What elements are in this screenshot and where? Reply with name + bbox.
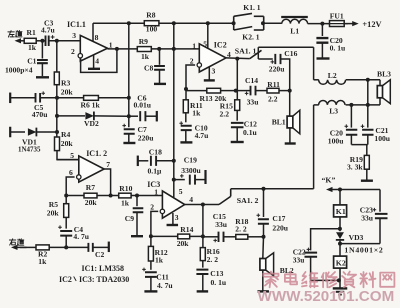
svg-text:L1: L1 <box>290 26 299 35</box>
diode VD1 zener <box>28 128 37 136</box>
wire <box>224 236 236 238</box>
capacitor C11 <box>145 272 157 277</box>
svg-text:20k: 20k <box>61 87 74 96</box>
resistor R3 <box>54 72 59 85</box>
node +12V <box>343 23 353 25</box>
resistor R5 <box>64 204 69 218</box>
wire <box>236 90 251 92</box>
capacitor C13 <box>196 270 208 274</box>
wire <box>314 104 319 106</box>
wire <box>236 91 238 100</box>
svg-text:33u: 33u <box>361 214 374 223</box>
wire <box>366 145 368 156</box>
resistor R13 <box>207 88 221 93</box>
node K <box>332 189 342 191</box>
svg-text:100u: 100u <box>328 137 344 146</box>
svg-text:WWW.520101.COM: WWW.520101.COM <box>258 288 395 303</box>
svg-text:R6 1k: R6 1k <box>81 101 101 110</box>
wire <box>366 169 368 180</box>
junction <box>337 278 341 282</box>
wire <box>98 97 128 99</box>
svg-text:L3: L3 <box>329 107 338 116</box>
svg-text:3. 3k: 3. 3k <box>347 163 363 172</box>
svg-text:1: 1 <box>154 187 158 196</box>
wire <box>56 85 58 137</box>
wire <box>185 89 187 100</box>
wire <box>289 91 291 117</box>
node terminal <box>9 127 11 138</box>
op-amp IC3 <box>162 191 184 218</box>
svg-text:20k: 20k <box>85 198 98 207</box>
ground <box>144 290 157 292</box>
junction <box>127 96 131 100</box>
wire <box>202 205 204 237</box>
svg-text:1N4001×2: 1N4001×2 <box>344 246 383 255</box>
wire <box>173 23 175 197</box>
svg-text:3300u: 3300u <box>181 166 201 175</box>
junction <box>115 47 119 51</box>
junction <box>64 194 68 198</box>
junction <box>288 89 292 93</box>
wire <box>108 48 138 50</box>
svg-text:0.1μ: 0.1μ <box>148 166 162 175</box>
wire <box>129 115 138 117</box>
svg-text:IC3: TDA2030: IC3: TDA2030 <box>79 275 129 284</box>
capacitor C10 <box>181 126 192 130</box>
watermark text row1 <box>263 272 278 288</box>
wire <box>279 90 290 92</box>
wire <box>264 22 282 24</box>
resistor R16 <box>200 248 205 261</box>
switch SA1.2 <box>219 196 231 204</box>
ground <box>154 83 166 85</box>
resistor R2 <box>36 245 49 250</box>
junction <box>109 194 113 198</box>
capacitor C8 <box>159 49 161 65</box>
svg-text:2. 2: 2. 2 <box>207 255 219 264</box>
junction <box>55 114 59 118</box>
svg-text:IC1: LM358: IC1: LM358 <box>82 264 124 273</box>
svg-text:100: 100 <box>146 24 158 33</box>
capacitor C6 <box>140 111 145 121</box>
svg-text:R1: R1 <box>27 28 36 37</box>
junction <box>262 187 266 191</box>
svg-text:C13: C13 <box>210 269 223 278</box>
svg-text:4: 4 <box>95 56 99 65</box>
node terminal <box>156 111 158 122</box>
svg-text:C14: C14 <box>245 76 258 85</box>
wire <box>339 241 341 257</box>
junction <box>127 21 131 25</box>
svg-text:R11: R11 <box>267 80 280 89</box>
wire <box>57 151 79 160</box>
wire <box>190 235 203 237</box>
svg-text:R10: R10 <box>119 184 132 193</box>
wire <box>57 159 79 161</box>
wire <box>93 22 234 24</box>
wire <box>351 144 367 146</box>
svg-text:20k: 20k <box>47 209 60 218</box>
wire <box>342 189 381 191</box>
ground <box>361 179 373 181</box>
wire <box>65 196 67 204</box>
wire <box>20 246 36 248</box>
wire <box>104 169 111 196</box>
junction <box>172 21 176 25</box>
svg-text:1k: 1k <box>121 199 130 208</box>
wire <box>207 23 209 48</box>
ground <box>93 55 95 68</box>
capacitor C7 <box>128 116 130 127</box>
wire <box>346 79 380 81</box>
svg-text:4. 7u: 4. 7u <box>73 232 89 241</box>
junction <box>55 96 59 100</box>
capacitor C23 <box>379 190 381 212</box>
svg-text:1k: 1k <box>192 109 201 118</box>
wire <box>57 115 85 117</box>
capacitor C19 <box>174 179 185 181</box>
svg-text:K2. 1: K2. 1 <box>242 32 260 41</box>
ground <box>208 67 210 80</box>
inductor L3 <box>319 101 345 105</box>
junction <box>172 178 176 182</box>
junction <box>201 203 205 207</box>
svg-text:VD3: VD3 <box>349 233 364 242</box>
ground <box>180 141 192 143</box>
node right-channel input 右道 <box>17 246 27 248</box>
capacitor C16 <box>275 54 280 64</box>
svg-text:33u: 33u <box>247 98 260 107</box>
svg-text:R7: R7 <box>86 183 95 192</box>
svg-text:7: 7 <box>106 160 110 169</box>
ground <box>197 290 209 292</box>
svg-text:1k: 1k <box>38 257 47 266</box>
wire <box>145 115 156 117</box>
svg-text:C1: C1 <box>27 56 36 65</box>
capacitor C15 <box>219 232 224 242</box>
svg-text:3: 3 <box>175 213 179 222</box>
junction <box>366 103 370 107</box>
svg-text:8: 8 <box>95 33 99 42</box>
wire <box>313 47 315 80</box>
ground <box>317 57 330 59</box>
capacitor C3 <box>46 36 49 47</box>
ground <box>131 235 143 237</box>
junction <box>206 21 210 25</box>
wire <box>151 211 158 236</box>
relay coil K1 <box>334 205 347 217</box>
wire <box>36 131 57 133</box>
wire <box>185 204 219 206</box>
svg-text:1: 1 <box>192 41 196 50</box>
svg-text:R3: R3 <box>61 78 70 87</box>
junction <box>127 114 131 118</box>
node terminal <box>9 93 11 104</box>
wire <box>313 105 315 189</box>
resistor R10 <box>119 193 131 198</box>
svg-text:2: 2 <box>150 203 154 212</box>
junction <box>338 242 342 246</box>
svg-text:VD2: VD2 <box>84 119 99 128</box>
svg-text:FU1: FU1 <box>330 12 344 21</box>
speaker BL3 <box>379 80 381 105</box>
svg-text:33u: 33u <box>293 255 305 264</box>
wire <box>66 195 84 197</box>
wire <box>339 217 341 231</box>
svg-text:4.7u: 4.7u <box>195 131 209 140</box>
wire <box>339 268 341 288</box>
wire <box>94 115 129 117</box>
svg-text:3: 3 <box>72 31 76 40</box>
wire <box>186 90 207 92</box>
resistor R12 <box>148 246 153 261</box>
svg-text:4. 7u: 4. 7u <box>157 281 173 290</box>
svg-text:5: 5 <box>203 39 207 48</box>
wire <box>262 270 264 291</box>
svg-text:0. 1u: 0. 1u <box>330 43 346 52</box>
wire <box>262 237 265 259</box>
resistor R18 <box>236 235 248 240</box>
svg-text:220u: 220u <box>138 133 154 142</box>
wire <box>367 80 369 105</box>
svg-text:IC1.1: IC1.1 <box>67 20 86 29</box>
resistor R1 <box>24 38 36 43</box>
svg-text:C17: C17 <box>272 214 285 223</box>
resistor R7 <box>84 193 97 198</box>
wire <box>40 97 57 99</box>
wire <box>231 188 314 190</box>
svg-text:5: 5 <box>70 151 74 160</box>
switch SA1.1 <box>250 50 262 58</box>
wire <box>131 195 162 197</box>
svg-text:2.2: 2.2 <box>220 110 230 119</box>
wire <box>65 217 67 228</box>
svg-text:0.1u: 0.1u <box>243 128 257 137</box>
wire <box>66 177 74 196</box>
svg-text:L2: L2 <box>328 71 337 80</box>
svg-text:R4: R4 <box>61 130 70 139</box>
node left-channel input 左道 <box>20 40 30 42</box>
capacitor C20 (0.1u) <box>321 24 323 36</box>
svg-text:SA1. 1: SA1. 1 <box>235 47 257 56</box>
wire <box>151 48 199 50</box>
wire <box>128 23 130 116</box>
junction <box>157 47 161 51</box>
svg-text:K2: K2 <box>336 258 346 267</box>
junction <box>366 78 370 82</box>
wire <box>65 236 67 248</box>
junction <box>338 227 342 231</box>
wire <box>202 261 204 268</box>
diode VD2 <box>85 112 94 120</box>
wire <box>49 246 88 248</box>
ground <box>172 213 174 224</box>
svg-text:C19: C19 <box>184 156 197 165</box>
svg-text:33u: 33u <box>215 220 228 229</box>
junction <box>232 21 236 25</box>
wire <box>150 277 152 291</box>
svg-text:1k: 1k <box>141 52 150 61</box>
wire <box>221 90 236 92</box>
svg-text:20k: 20k <box>61 139 74 148</box>
junction <box>40 39 44 43</box>
op-amp IC1.2 <box>79 156 104 182</box>
junction <box>64 245 68 249</box>
svg-text:3: 3 <box>212 67 216 76</box>
svg-text:C2: C2 <box>95 250 104 259</box>
wire <box>281 59 290 91</box>
svg-text:4: 4 <box>189 195 193 204</box>
svg-text:2.2: 2.2 <box>268 94 278 103</box>
svg-text:R14: R14 <box>180 225 193 234</box>
resistor R11 (2.2) <box>267 88 279 93</box>
svg-text:K1: K1 <box>336 207 346 216</box>
svg-text:+12V: +12V <box>362 20 381 29</box>
junction <box>234 89 238 93</box>
wire <box>36 40 45 42</box>
resistor R8 <box>144 21 159 26</box>
speaker BL1 <box>287 116 293 128</box>
svg-text:0. 1u: 0. 1u <box>211 278 227 287</box>
capacitor C12 <box>231 123 244 127</box>
ground <box>285 142 296 144</box>
svg-text:4.7u: 4.7u <box>41 26 55 35</box>
resistor R9 <box>137 47 151 52</box>
resistor R14 <box>178 234 190 239</box>
wire <box>308 23 330 25</box>
svg-text:C18: C18 <box>149 147 162 156</box>
svg-text:C16: C16 <box>284 49 297 58</box>
capacitor C4 <box>60 231 72 236</box>
junction <box>135 194 139 198</box>
wire <box>186 65 195 89</box>
wire <box>151 235 178 237</box>
junction <box>320 22 324 26</box>
svg-text:1: 1 <box>109 40 113 49</box>
wire <box>289 128 291 143</box>
diode VD3 <box>336 232 344 239</box>
wire <box>340 243 380 245</box>
capacitor C17 <box>263 189 265 217</box>
junction <box>172 47 176 51</box>
resistor R19 <box>364 155 369 169</box>
capacitor C20 (100u) <box>350 105 352 128</box>
ground <box>123 142 135 144</box>
svg-text:R8: R8 <box>146 11 155 20</box>
wire <box>226 57 250 60</box>
inductor L1 <box>282 19 308 23</box>
wire <box>56 41 58 72</box>
capacitor C18 <box>137 156 139 167</box>
wire <box>97 195 119 197</box>
wire <box>258 46 313 48</box>
svg-text:“K”: “K” <box>322 175 336 184</box>
svg-text:1k: 1k <box>28 43 37 52</box>
fuse FU1 <box>330 21 345 27</box>
wire <box>248 236 264 238</box>
ground <box>257 290 269 292</box>
svg-text:1k: 1k <box>155 255 164 264</box>
junction <box>261 21 265 25</box>
wire <box>81 49 117 73</box>
svg-text:C8: C8 <box>144 64 153 73</box>
inductor L2 <box>319 80 346 85</box>
wire <box>57 97 84 99</box>
svg-text:C9: C9 <box>125 214 134 223</box>
wire <box>10 131 25 133</box>
junction <box>55 130 59 134</box>
svg-text:BL1: BL1 <box>272 118 286 127</box>
capacitor C22 <box>311 229 340 251</box>
capacitor C2 <box>88 243 92 252</box>
wire <box>346 104 380 106</box>
op-amp IC2 <box>199 44 226 72</box>
capacitor C14 <box>251 86 256 96</box>
capacitor C5 <box>36 93 41 103</box>
svg-text:R9: R9 <box>139 37 148 46</box>
resistor R6 <box>84 96 99 101</box>
svg-text:6: 6 <box>69 168 73 177</box>
wire <box>203 236 219 238</box>
svg-text:2: 2 <box>71 47 75 56</box>
wire <box>339 190 341 205</box>
wire <box>202 237 204 248</box>
wire <box>49 40 81 42</box>
svg-text:220u: 220u <box>272 224 288 233</box>
svg-text:IC1. 2: IC1. 2 <box>86 149 107 158</box>
wire <box>314 79 319 81</box>
wire <box>257 47 259 59</box>
resistor R15 <box>235 100 240 111</box>
junction <box>262 235 266 239</box>
ground <box>231 141 244 143</box>
ground <box>36 76 49 78</box>
svg-text:BL3: BL3 <box>377 69 391 78</box>
svg-text:IC2: IC2 <box>59 275 72 284</box>
junction <box>172 159 176 163</box>
junction <box>149 234 153 238</box>
wire <box>236 110 238 120</box>
speaker BL2 <box>260 259 266 271</box>
relay coil K2 <box>334 256 347 268</box>
wire <box>150 236 152 246</box>
svg-text:K1. 1: K1. 1 <box>243 3 261 12</box>
svg-text:IC2: IC2 <box>214 41 227 50</box>
svg-text:1000p×4: 1000p×4 <box>5 65 33 74</box>
junction <box>349 103 353 107</box>
junction <box>184 87 188 91</box>
svg-text:220u: 220u <box>269 64 285 73</box>
svg-text:5: 5 <box>179 187 183 196</box>
resistor R11 (1k) <box>183 100 188 113</box>
capacitor C1 <box>41 41 43 59</box>
wire <box>10 97 35 99</box>
capacitor C9 <box>136 196 138 207</box>
junction <box>201 234 205 238</box>
svg-text:100u: 100u <box>374 134 390 143</box>
wire <box>185 113 187 123</box>
wire <box>236 59 238 91</box>
op-amp IC1.1 <box>80 35 107 61</box>
svg-text:SA1. 2: SA1. 2 <box>237 196 259 205</box>
svg-text:0.01u: 0.01u <box>134 101 152 110</box>
resistor R4 <box>55 137 60 151</box>
wire <box>256 90 268 92</box>
wire <box>258 58 273 60</box>
ground <box>333 287 348 289</box>
capacitor C21 <box>367 105 369 128</box>
wire <box>150 261 152 270</box>
